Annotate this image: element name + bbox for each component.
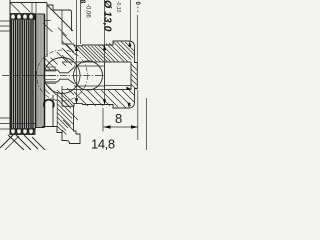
svg-text:0 - -: 0 - - — [134, 2, 140, 13]
gear collar right bold edge — [44, 14, 46, 128]
right block outline — [62, 41, 137, 108]
14,8 right extension line — [146, 98, 148, 150]
bearing sphere 1 — [44, 58, 80, 94]
top flange strip outline — [10, 2, 47, 4]
top flange hatch — [11, 3, 21, 13]
gear hub top step line — [45, 20, 51, 22]
gear body gray fill — [10, 13, 34, 135]
ext line for 8-dim left — [102, 108, 104, 132]
gear collar top edge — [36, 13, 45, 15]
d1 bottom arrow — [75, 98, 78, 103]
left stub lines top — [0, 20, 11, 22]
extension line at 80.5 — [80, 0, 82, 44]
shaft upper line — [45, 67, 75, 73]
gear collar bottom edge — [36, 127, 45, 129]
8 dim line — [104, 126, 139, 128]
top flange inner verticals — [31, 3, 33, 13]
sphere 1 surround hatch top — [45, 58, 57, 70]
sphere 1 surround hatch bottom — [46, 84, 53, 91]
svg-text:8: 8 — [115, 111, 122, 126]
boss bottom extension line — [137, 90, 139, 140]
dim line d2 lower segment — [104, 90, 106, 105]
bore upper line — [74, 65, 105, 67]
gear bottom tooth tips outline — [10, 128, 34, 135]
text label C — [44, 100, 54, 108]
bottom wall slab hatch — [57, 90, 78, 135]
bearing sphere 2 — [74, 61, 103, 90]
svg-text:8: 8 — [79, 0, 86, 4]
bottom slot wall — [52, 95, 54, 127]
right block hatch top band — [62, 42, 135, 107]
cavity top edge — [62, 61, 105, 63]
right block hatch bottom band — [74, 90, 135, 108]
gear top tooth tips strip — [10, 13, 36, 20]
svg-text:-0,06: -0,06 — [85, 4, 91, 18]
bottom-left corner tabs — [0, 135, 13, 148]
d3 top arrow — [128, 41, 131, 46]
housing top hatch — [62, 33, 72, 43]
gear top tooth tip holes — [11, 14, 33, 18]
window (bore cavity) — [105, 62, 132, 90]
d2 bottom arrow — [103, 99, 106, 104]
gear collar band fill — [36, 14, 45, 128]
dim line d1 — [76, 0, 78, 104]
centerline (axis) — [2, 75, 104, 77]
gear bottom tooth tip holes — [11, 129, 33, 133]
bottom staircase — [42, 106, 80, 143]
bore lower line — [74, 85, 105, 87]
right block hatch right strip — [131, 64, 137, 70]
window corner wedge — [127, 87, 132, 90]
shaft lower line — [45, 79, 75, 84]
left stub lines bottom — [0, 117, 11, 119]
8 dim right arrow — [131, 125, 138, 129]
gear collar left bold edge — [35, 14, 37, 128]
d3 bottom arrow — [127, 103, 130, 108]
svg-text:-0,10: -0,10 — [115, 1, 121, 13]
8 dim left arrow — [104, 125, 111, 129]
gear left edge — [9, 0, 11, 135]
housing big fold diagonal — [47, 5, 73, 31]
gear bottom tooth tips strip — [10, 128, 36, 135]
pitch dash-dot circle — [37, 50, 88, 101]
gear collar band streaks — [38, 16, 41, 126]
svg-text:Ø 13,0: Ø 13,0 — [102, 0, 114, 32]
gear tooth flank light lines — [11, 21, 13, 127]
collar top edge — [62, 43, 74, 45]
housing top staircase — [47, 5, 72, 31]
gear tooth flank lines — [11, 19, 33, 133]
collar bottom edge — [61, 86, 63, 106]
cavity bottom edge — [62, 89, 105, 91]
collar inner vertical — [61, 10, 63, 44]
boss top extension line — [136, 15, 138, 62]
d1 top arrow — [75, 46, 78, 51]
sphere 1 soft-metal hatch — [44, 67, 56, 84]
window inner lip line — [105, 85, 132, 87]
dim line d2 — [104, 0, 106, 62]
housing top-left vertical wall — [46, 3, 48, 58]
svg-text:14,8: 14,8 — [91, 137, 115, 151]
housing small fold diagonal — [43, 23, 53, 32]
bottom wall inner edge — [56, 92, 58, 127]
d2 top arrow — [103, 45, 106, 50]
dim line d3 — [130, 0, 132, 41]
gear top tooth tips outline — [10, 13, 36, 20]
